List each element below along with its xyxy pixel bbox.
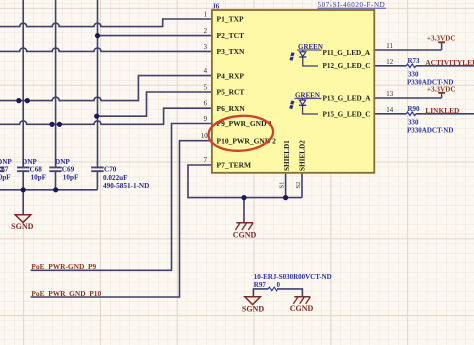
wire pin2 net: from junction on C70 bus to pin2: [98, 35, 212, 37]
svg-text:5: 5: [204, 84, 208, 91]
wire drop to SGND: [22, 190, 24, 215]
wire R97 between SGND and CGND: [253, 289, 302, 297]
svg-text:330: 330: [408, 119, 419, 127]
svg-text:C68: C68: [30, 165, 43, 173]
wire pin11 to +3.3VDC: [374, 49, 441, 51]
wire pin14 through R90 to right edge: [374, 113, 474, 115]
svg-text:P3_TXN: P3_TXN: [217, 47, 246, 56]
wire C68 bottom stub: [22, 171, 24, 190]
svg-text:6: 6: [204, 101, 208, 108]
svg-text:P330ADCT-ND: P330ADCT-ND: [407, 127, 453, 135]
junction shield S1: [283, 195, 288, 200]
wire shield pin S1 stub: [285, 173, 287, 198]
wire shield pin S2 stub: [301, 173, 303, 198]
wire pin4 net: row y=75.6, drop x=138.4, run y=100.6 joining C68 bus: [0, 76, 212, 101]
ground CGND (chassis, at R97): [290, 297, 314, 313]
svg-text:0: 0: [277, 281, 281, 289]
wire pin9 net to PoE_PWR-GND_P9 label: [31, 124, 212, 271]
annotation red ellipse around P9/P10 PWR_GND pins: [207, 114, 274, 153]
capacitor C67 (cut at edge): [0, 158, 12, 182]
junction ground bus / C68: [21, 187, 26, 192]
wire pin3 net: run y=51.4 with hops: [0, 48, 212, 51]
power +3.3VDC (pin 11): [427, 35, 456, 50]
svg-text:CGND: CGND: [290, 304, 314, 313]
svg-text:3: 3: [204, 44, 208, 51]
junction pin4 net / C68 bus (left): [16, 98, 21, 103]
svg-text:P4_RXP: P4_RXP: [217, 71, 245, 80]
junction pin6 net / C69 bus (right): [57, 122, 62, 127]
wire pin5 net: row y=92, drop x=146.5, run y=116.2 to junction on C70 bus: [97, 92, 212, 116]
wire pin1 net: row y=19, step at x=162.7, run y=26.6 with hops: [0, 19, 212, 27]
svg-text:R73: R73: [408, 57, 421, 65]
ground CGND (chassis, under shield pins): [233, 223, 257, 240]
svg-text:C70: C70: [104, 165, 117, 173]
svg-text:10pF: 10pF: [31, 174, 47, 182]
resistor R73: [406, 57, 453, 87]
svg-text:P12_G_LED_C: P12_G_LED_C: [323, 62, 371, 70]
svg-text:J6: J6: [212, 4, 219, 11]
svg-text:4: 4: [204, 68, 208, 75]
junction pin2 net / C70 bus: [95, 33, 100, 38]
svg-text:330: 330: [408, 71, 419, 79]
svg-text:SHIELD1: SHIELD1: [283, 140, 291, 171]
wire C69 bottom stub: [55, 171, 57, 190]
svg-text:SGND: SGND: [11, 222, 33, 231]
junction pin5 net / C70 bus: [94, 114, 99, 119]
wire pin7 net to shield/CGND node: [188, 165, 302, 198]
power +3.3VDC (pin 13): [427, 85, 456, 98]
capacitor C69: [49, 158, 79, 182]
wire vertical bus to C68: [22, 0, 24, 167]
svg-text:S2: S2: [295, 182, 302, 189]
wire pin6 net: row y=108.2, drop x=163.6, run y=124.3 joining C69 bus: [0, 108, 212, 124]
svg-text:490-5851-1-ND: 490-5851-1-ND: [103, 182, 149, 190]
svg-text:LINKLED: LINKLED: [425, 106, 459, 115]
wire vertical bus to C70: [97, 0, 99, 167]
svg-text:10pF: 10pF: [63, 174, 79, 182]
wire vertical bus to C69: [55, 0, 57, 167]
svg-text:P1_TXP: P1_TXP: [217, 15, 245, 24]
svg-text:10pF: 10pF: [0, 174, 11, 182]
wire pin13 to +3.3VDC: [374, 97, 441, 99]
svg-text:11: 11: [386, 43, 393, 50]
svg-text:P330ADCT-ND: P330ADCT-ND: [407, 79, 453, 87]
svg-text:S1: S1: [279, 182, 286, 189]
LED D2 GREEN (pins 13/14): [289, 92, 321, 115]
capacitor C68: [17, 158, 47, 182]
svg-text:10: 10: [201, 133, 208, 140]
svg-text:7: 7: [204, 157, 208, 164]
svg-text:ACTIVITYLED: ACTIVITYLED: [425, 58, 474, 67]
svg-text:+3.3VDC: +3.3VDC: [427, 35, 456, 43]
svg-text:10-ERJ-S030R00VCT-ND: 10-ERJ-S030R00VCT-ND: [254, 273, 332, 281]
svg-text:C67: C67: [0, 165, 9, 173]
svg-text:P11_G_LED_A: P11_G_LED_A: [323, 49, 371, 57]
svg-text:P7_TERM: P7_TERM: [217, 161, 252, 170]
resistor R90: [406, 105, 453, 135]
svg-text:1: 1: [204, 11, 207, 18]
svg-text:P6_RXN: P6_RXN: [217, 104, 246, 113]
connector J6 body (507-SI-46020-F-ND): [212, 10, 374, 173]
svg-text:SHIELD2: SHIELD2: [298, 140, 306, 171]
junction ground bus / C69: [53, 187, 58, 192]
svg-text:PoE_PWR_GND_P10: PoE_PWR_GND_P10: [31, 289, 101, 298]
svg-text:C69: C69: [62, 165, 75, 173]
svg-text:12: 12: [386, 59, 393, 66]
ground SGND (at R97): [242, 297, 264, 314]
svg-text:+3.3VDC: +3.3VDC: [427, 85, 456, 93]
svg-text:CGND: CGND: [233, 231, 257, 240]
svg-text:13: 13: [386, 91, 393, 98]
wire stem to CGND: [243, 198, 245, 223]
svg-text:P15_G_LED_C: P15_G_LED_C: [323, 111, 371, 119]
svg-text:R90: R90: [408, 105, 421, 113]
svg-text:PoE_PWR-GND_P9: PoE_PWR-GND_P9: [31, 262, 96, 271]
svg-text:P2_TCT: P2_TCT: [217, 31, 245, 40]
junction pin4 net / C68 bus (right): [25, 98, 30, 103]
junction pin7 net / CGND stem: [241, 195, 246, 200]
wire ground bus under capacitors: [0, 189, 97, 191]
svg-text:R97: R97: [254, 281, 267, 289]
wire C70 bottom stub: [96, 171, 98, 190]
resistor R97: [254, 273, 332, 291]
junction pin6 net / C69 bus (left): [49, 122, 54, 127]
svg-text:P5_RCT: P5_RCT: [217, 88, 245, 97]
LED D1 GREEN (pins 11/12): [289, 43, 323, 66]
svg-text:2: 2: [204, 28, 208, 35]
wire pin12 through R73 to right edge: [374, 65, 474, 67]
wire pin10 net to PoE_PWR_GND_P10 label: [31, 141, 212, 297]
svg-text:14: 14: [386, 107, 393, 114]
svg-text:9: 9: [204, 116, 208, 123]
ground SGND (under capacitor bus): [11, 215, 33, 231]
capacitor C70: [91, 165, 149, 190]
svg-text:SGND: SGND: [242, 305, 264, 314]
svg-text:P13_G_LED_A: P13_G_LED_A: [323, 95, 372, 103]
svg-text:0.022uF: 0.022uF: [103, 174, 128, 182]
